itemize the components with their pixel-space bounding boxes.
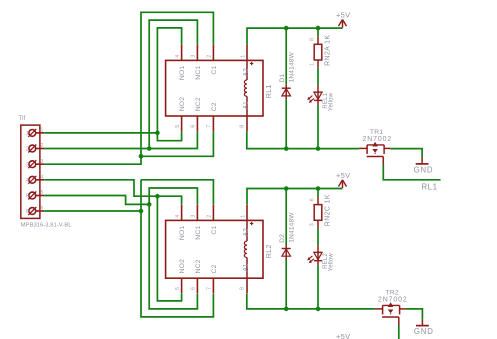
ground GND: [414, 319, 434, 336]
wire drain rail relay1 coil pin 8 to TR1: [247, 131, 359, 148]
svg-text:NC1: NC1: [195, 65, 202, 79]
wire net T2 terminal2 row: [44, 148, 149, 150]
relay RL1 pin 6 NC2 lead: [191, 97, 202, 131]
svg-text:2: 2: [207, 55, 213, 58]
svg-text:RL1: RL1: [421, 183, 437, 192]
relay RL1 pin 4 NO1 lead: [175, 45, 186, 80]
svg-text:2: 2: [207, 215, 213, 218]
net label RL1: [421, 183, 437, 192]
wire net T3 loop to relay1 pin 2 C1: [141, 12, 213, 156]
svg-text:Yellow: Yellow: [328, 92, 334, 111]
supply +5V bottom text: [336, 332, 350, 339]
svg-text:TR1: TR1: [370, 129, 384, 136]
supply +5V: [336, 171, 350, 188]
svg-text:8: 8: [240, 287, 246, 290]
node junction T2: [147, 146, 152, 151]
svg-text:D2: D2: [279, 234, 286, 243]
svg-text:6: 6: [26, 209, 29, 215]
wire net T5 terminal5 row: [44, 196, 149, 205]
svg-text:2N7002: 2N7002: [363, 136, 393, 143]
svg-text:4: 4: [175, 215, 181, 218]
svg-text:RL2: RL2: [264, 244, 273, 258]
wire net RL1 from TR1 gate: [383, 165, 440, 180]
wire REL2 branch lower: [317, 265, 319, 309]
connector terminal pin 5: [26, 190, 44, 199]
svg-text:Yellow: Yellow: [328, 253, 334, 272]
svg-text:3: 3: [191, 215, 197, 218]
wire net T3 terminal3 row: [44, 156, 141, 164]
relay RL2 pin 2 C1 lead: [207, 205, 218, 235]
connector terminal pin 4: [26, 175, 44, 184]
LED REL2 Yellow: [307, 245, 334, 271]
svg-text:7: 7: [207, 125, 213, 128]
relay RL2 coil: [240, 205, 254, 294]
wire net T6 terminal6 row: [44, 210, 141, 212]
svg-text:7: 7: [207, 287, 213, 290]
wire D2 branch upper: [285, 189, 287, 246]
relay RL1 coil: [240, 45, 254, 131]
svg-text:MPB316-3,81-V-BL: MPB316-3,81-V-BL: [21, 222, 72, 228]
wire net T4 terminal4 to relay2 pin 4 NO1: [44, 180, 181, 205]
svg-text:C2: C2: [211, 102, 218, 111]
relay RL2 pin 7 C2 lead: [207, 264, 218, 293]
LED REL1 Yellow: [307, 85, 334, 111]
wire RN2C to REL2: [317, 228, 319, 245]
relay RL2 pin 3 NC1 lead: [191, 205, 202, 240]
svg-text:2N7002: 2N7002: [378, 297, 408, 304]
wire +5V rail relay1 from coil pin 1: [247, 28, 343, 45]
wire RN2A to REL1: [317, 68, 319, 85]
relay RL2 pin 4 NO1 lead: [175, 205, 186, 240]
svg-text:6: 6: [191, 287, 197, 290]
connector terminal pin 6: [26, 206, 44, 215]
connector terminal pin 1: [26, 128, 44, 137]
svg-text:6: 6: [191, 125, 197, 128]
svg-text:+5V: +5V: [336, 11, 350, 20]
svg-text:RN2C 1K: RN2C 1K: [325, 194, 332, 226]
node junction +5V rail D1: [284, 26, 289, 31]
svg-text:2: 2: [41, 143, 44, 149]
wire RN2C branch upper: [317, 189, 319, 198]
relay RL2 pin 5 NO2 lead: [175, 259, 186, 294]
wire drain rail relay2 coil pin 8 to TR2: [247, 294, 375, 309]
node junction drain rail REL1: [316, 146, 321, 151]
svg-text:6: 6: [310, 198, 316, 201]
wire net T2 loop to relay1 pin 3 NC1: [149, 20, 197, 148]
svg-text:3: 3: [310, 223, 316, 226]
node junction +5V rail D2: [284, 186, 289, 191]
relay RL1 pin 3 NC1 lead: [191, 45, 202, 80]
relay RL1 pin 5 NO2 lead: [175, 97, 186, 132]
connector terminal pin 3: [26, 159, 44, 168]
wire net T3 link to relay1 pin 7 C2: [141, 131, 213, 156]
relay RL1 pin 2 C1 lead: [207, 45, 218, 75]
node junction T1: [155, 131, 160, 136]
wire net RL2 from TR2 gate: [398, 325, 400, 339]
svg-text:TR2: TR2: [385, 290, 399, 297]
resistor RN2C 1K: [310, 194, 332, 228]
svg-text:NO1: NO1: [179, 225, 186, 240]
node junction T3: [139, 154, 144, 159]
node junction T4: [155, 194, 160, 199]
svg-text:RL1: RL1: [264, 84, 273, 98]
wire net T1 link to relay1 pin 5 NO2: [157, 131, 181, 140]
transistor TR2 2N7002 N-MOSFET: [375, 290, 408, 326]
svg-text:C1: C1: [211, 225, 218, 234]
wire net T4 loop to relay2 pin 5 NO2: [157, 196, 181, 301]
svg-text:1: 1: [41, 128, 44, 134]
node junction drain rail D1: [284, 146, 289, 151]
diode D1 1N4148W: [279, 51, 296, 99]
svg-text:RN2A 1K: RN2A 1K: [325, 35, 332, 66]
relay RL1 value label: [264, 84, 273, 98]
svg-text:GND: GND: [414, 165, 434, 174]
svg-text:+5V: +5V: [336, 332, 350, 339]
ground GND: [414, 158, 434, 175]
svg-text:A2: A2: [243, 68, 250, 76]
svg-text:A2: A2: [243, 228, 250, 236]
svg-text:1: 1: [310, 63, 316, 66]
svg-text:C1: C1: [211, 65, 218, 74]
connector terminal pin 2: [26, 143, 44, 152]
wire +5V rail relay2 from coil pin 1: [247, 189, 343, 205]
svg-text:A1: A1: [243, 263, 250, 271]
wire net T2 link to relay1 pin 6 NC2: [149, 131, 197, 148]
wire net T5 loop to relay2 pin 6 NC2: [149, 204, 197, 309]
svg-text:C2: C2: [211, 264, 218, 273]
relay RL2 value label: [264, 244, 273, 258]
svg-text:NC1: NC1: [195, 225, 202, 239]
relay RL1 pin 7 C2 lead: [207, 102, 218, 131]
wire TR2 source to GND: [406, 309, 423, 320]
svg-text:2: 2: [26, 147, 29, 153]
svg-text:NC2: NC2: [195, 97, 202, 111]
svg-text:Tlf: Tlf: [18, 116, 25, 122]
svg-text:+5V: +5V: [336, 171, 350, 180]
svg-text:1: 1: [240, 55, 246, 58]
svg-text:1N4148W: 1N4148W: [289, 212, 296, 243]
wire RN2A branch upper: [317, 28, 319, 37]
relay RL2 box: [166, 220, 263, 278]
svg-text:5: 5: [175, 287, 181, 290]
resistor RN2A 1K: [310, 35, 332, 68]
node junction +5V rail RN2A: [316, 26, 321, 31]
svg-text:A1: A1: [243, 101, 250, 109]
wire REL1 branch lower: [317, 105, 319, 149]
svg-text:4: 4: [175, 55, 181, 58]
svg-text:5: 5: [26, 194, 29, 200]
svg-text:3: 3: [41, 159, 44, 165]
node junction T5: [147, 202, 152, 207]
svg-text:1N4148W: 1N4148W: [289, 51, 296, 82]
node junction drain rail D2: [284, 307, 289, 312]
svg-text:5: 5: [175, 125, 181, 128]
svg-text:NC2: NC2: [195, 259, 202, 273]
svg-text:NO2: NO2: [179, 259, 186, 274]
node junction drain rail REL2: [316, 307, 321, 312]
node junction +5V rail RN2C: [316, 186, 321, 191]
wire net T5 link to relay2 pin 3 NC1: [149, 188, 197, 205]
svg-text:GND: GND: [414, 327, 434, 336]
wire net T6 loop to relay2 pin 7 C2: [141, 180, 213, 317]
svg-text:8: 8: [310, 38, 316, 41]
transistor TR1 2N7002 N-MOSFET: [359, 129, 392, 165]
svg-text:8: 8: [240, 125, 246, 128]
wire TR1 source to GND: [390, 149, 422, 158]
wire net T6 link to relay2 pin 2 C1: [141, 180, 213, 205]
relay RL2 pin 6 NC2 lead: [191, 259, 202, 293]
wire net T1 loop to relay1 pin 4 NO1: [157, 28, 181, 133]
diode D2 1N4148W: [279, 212, 296, 260]
wire D1 branch lower: [285, 99, 287, 148]
svg-text:5: 5: [41, 190, 44, 196]
svg-text:4: 4: [41, 175, 44, 181]
svg-text:1: 1: [26, 131, 29, 137]
svg-text:1: 1: [240, 215, 246, 218]
wire D1 branch upper: [285, 28, 287, 85]
svg-text:3: 3: [191, 55, 197, 58]
supply +5V: [336, 11, 350, 28]
svg-text:4: 4: [26, 178, 29, 184]
svg-text:NO1: NO1: [179, 65, 186, 80]
node junction T6: [139, 209, 144, 214]
svg-text:6: 6: [41, 206, 44, 212]
svg-text:3: 3: [26, 162, 29, 168]
relay RL1 box: [166, 60, 263, 116]
svg-text:D1: D1: [279, 74, 286, 83]
wire D2 branch lower: [285, 260, 287, 309]
wire net T1 terminal1 row: [44, 132, 157, 134]
connector J1 Tlf MPB316-3,81-V-BL: [18, 116, 72, 229]
svg-text:NO2: NO2: [179, 97, 186, 112]
